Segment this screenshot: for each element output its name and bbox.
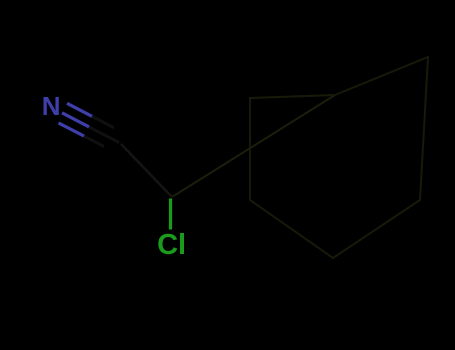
upper dark half <box>92 116 114 127</box>
bond C1-C2 (dark) <box>121 144 172 197</box>
wire chain C2 to ring <box>172 95 335 197</box>
axis dark half <box>89 127 119 143</box>
svg-text:N: N <box>42 91 61 121</box>
ring cyclohexane <box>250 57 428 258</box>
lower dark half <box>84 136 104 146</box>
lower blue <box>59 123 85 136</box>
triple bond N#C: blue lines <box>59 103 93 136</box>
bond C2-Cl (green) <box>169 199 172 230</box>
svg-text:Cl: Cl <box>157 229 186 261</box>
upper blue <box>67 103 92 116</box>
triple bond N#C: dark continuations <box>84 116 119 146</box>
axis blue <box>62 113 89 127</box>
